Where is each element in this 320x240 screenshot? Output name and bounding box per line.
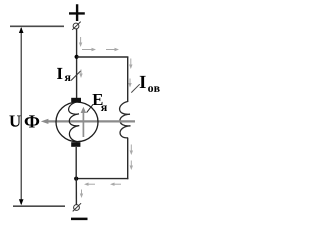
label Iя: [57, 68, 62, 79]
current arrow bottom wire right (gray, left): [110, 183, 121, 186]
current arrow below bottom junction (gray, down): [80, 190, 83, 199]
wire: junction down to minus terminal: [75, 179, 77, 205]
flux axis line (gray): [45, 120, 135, 122]
flux arrowhead pointing left: [41, 119, 49, 124]
label U: [9, 116, 20, 127]
current arrow right branch upper (gray, down): [129, 59, 132, 70]
armature winding loops: [69, 102, 80, 142]
U dimension bottom reference bar: [13, 205, 65, 207]
current arrow right branch below winding 1 (gray, down): [130, 145, 133, 156]
junction node top: [75, 55, 79, 59]
label Iов: [140, 76, 146, 88]
brush top: [71, 98, 81, 102]
U dimension line with arrows: [19, 27, 24, 205]
wire: right branch upper vertical: [127, 57, 129, 102]
wire: top horizontal to field branch: [77, 56, 129, 58]
current arrow top wire first (gray, right): [82, 48, 96, 51]
current arrow on left wire upper (gray): [79, 37, 82, 47]
field winding OB (3 scallops): [120, 102, 131, 138]
wire: plus terminal down to armature top brush: [76, 29, 78, 99]
U dimension top reference bar: [10, 25, 64, 27]
plus polarity mark: [69, 4, 85, 21]
label Ф: [25, 115, 40, 127]
terminal - (circle with slash): [73, 203, 81, 211]
minus polarity mark: [71, 218, 88, 221]
wire: armature bottom brush down to junction: [75, 147, 77, 179]
label Ея: [93, 94, 103, 105]
current arrow bottom wire left (gray, left): [84, 183, 95, 186]
current slash Iов: [131, 84, 139, 92]
brush bottom: [71, 142, 80, 147]
label pointer line to Ея: [87, 104, 93, 112]
current arrow right branch below winding 2 (gray, down): [130, 161, 133, 171]
armature circle M: [56, 102, 98, 142]
current arrow top wire second (gray, right): [106, 48, 119, 51]
current arrow right branch above slash (gray, down): [128, 79, 131, 88]
EMF arrow Ея (gray, up): [81, 107, 87, 137]
junction node bottom: [74, 177, 78, 181]
current arrow on left wire lower (gray): [79, 70, 82, 79]
wire: right branch lower vertical: [127, 138, 129, 180]
current slash Iя: [71, 71, 81, 81]
terminal + (circle with slash): [72, 22, 80, 30]
wire: bottom horizontal back to junction: [76, 178, 128, 180]
